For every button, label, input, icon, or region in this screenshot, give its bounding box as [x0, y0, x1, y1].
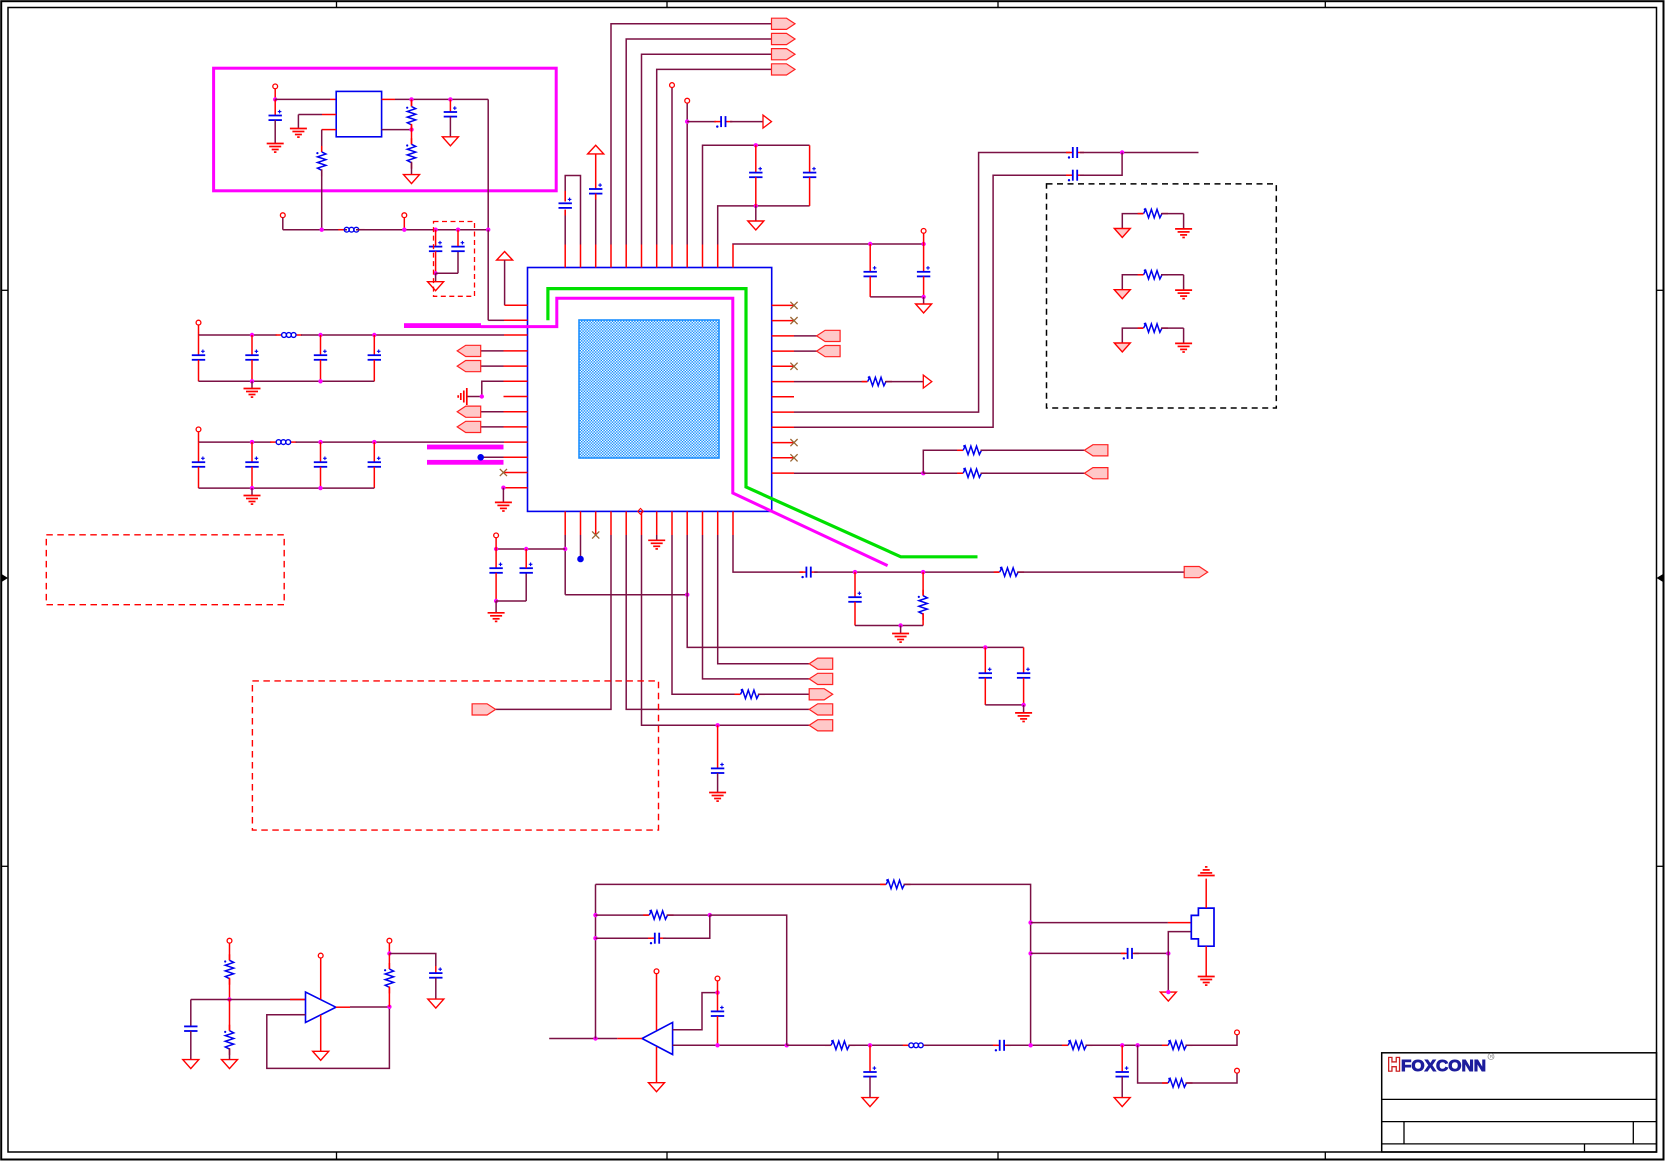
wire: [564, 210, 566, 216]
ground: [1175, 343, 1192, 352]
wire: [350, 1006, 389, 1008]
capacitor C12: [1066, 152, 1073, 154]
title block divider a: [1403, 1122, 1405, 1144]
ground: [267, 144, 284, 153]
wire: [687, 121, 716, 123]
wire: [467, 396, 482, 398]
terminal J9: [494, 533, 499, 538]
wire: [758, 693, 809, 695]
red dashed box B: [252, 681, 658, 830]
connector arrow: [457, 361, 481, 372]
wire: [336, 1006, 350, 1008]
wire: [1017, 571, 1184, 573]
resistor R11: [224, 1025, 234, 1055]
wire: [1161, 274, 1184, 276]
wire: [642, 54, 772, 244]
junction: [785, 1043, 789, 1047]
junction: [1028, 920, 1032, 924]
resistor R16: [1062, 1040, 1092, 1050]
pin stub: [772, 381, 794, 383]
pin stub: [641, 511, 643, 535]
junction: [685, 593, 689, 597]
signal ground: [458, 388, 467, 405]
wire: [495, 538, 497, 549]
junction: [524, 547, 528, 551]
pin stub: [625, 511, 627, 535]
connector arrow: [1184, 567, 1208, 578]
wire: [848, 1044, 907, 1046]
title block outline: [1382, 1053, 1657, 1152]
red dashed box A: [46, 535, 284, 605]
pin stub: [686, 245, 688, 268]
capacitor C18: [1017, 673, 1030, 678]
pin stub: [656, 245, 658, 268]
pin stub: [504, 350, 528, 352]
wire: [251, 442, 253, 462]
wire: [199, 441, 272, 443]
pin stub: [641, 245, 643, 268]
wire: [435, 966, 437, 973]
wire: [595, 154, 597, 189]
wire: [229, 943, 231, 960]
connector arrow: [1084, 468, 1108, 479]
wire: [1031, 952, 1126, 954]
wire: [718, 206, 810, 245]
junction: [563, 547, 567, 551]
wire: [1023, 678, 1025, 705]
wire: [322, 114, 336, 116]
resistor R3: [406, 138, 416, 168]
terminal J15: [1235, 1030, 1240, 1035]
wire: [733, 243, 870, 246]
wire: [320, 442, 322, 462]
wire: [502, 488, 504, 503]
wire: [321, 130, 323, 152]
wire: [1183, 275, 1185, 290]
capacitor C20: [848, 597, 861, 602]
ground: [1175, 290, 1192, 299]
wire: [322, 129, 337, 131]
inductor L4: [903, 1043, 929, 1048]
wire: [923, 244, 925, 272]
pin stub: [772, 457, 794, 459]
ground: [313, 1051, 329, 1060]
wire: [290, 999, 306, 1001]
resistor: [1138, 323, 1168, 333]
wire: [199, 334, 277, 336]
wire: [449, 99, 451, 112]
terminal J12: [387, 938, 392, 943]
resistor R5: [957, 445, 987, 455]
resistor R7: [735, 689, 765, 699]
junction: [754, 143, 758, 147]
power arrow VCC: [497, 252, 513, 261]
wire: [663, 915, 710, 938]
pin stub: [717, 511, 719, 535]
ground: [1114, 290, 1130, 299]
wire: [595, 194, 597, 245]
op-amp plus input wire: [673, 993, 718, 1030]
op-amp ground lead: [320, 1015, 322, 1051]
ground: [1175, 229, 1192, 238]
border tick right: [1657, 289, 1664, 291]
wire: [923, 276, 925, 297]
wire: [794, 350, 840, 352]
wire: [496, 535, 611, 709]
pin stub: [564, 245, 566, 268]
wire: [794, 472, 923, 474]
wire: [449, 117, 451, 137]
resistor R9: [918, 590, 928, 620]
capacitor C24: [648, 937, 655, 939]
wire: [457, 230, 459, 246]
wire: [411, 99, 413, 106]
wire: [855, 625, 923, 627]
wire: [595, 884, 597, 1038]
junction: [409, 127, 413, 131]
junction: [402, 228, 406, 232]
wire: [1023, 705, 1025, 713]
ground: [488, 613, 505, 622]
magenta section box: [214, 68, 557, 191]
junction: [480, 394, 484, 398]
wire: [1121, 1045, 1123, 1072]
junction: [227, 997, 231, 1001]
title block row line 1: [1382, 1098, 1657, 1100]
wire: [290, 1014, 306, 1016]
wire: [1186, 1035, 1238, 1046]
terminal J10: [227, 938, 232, 943]
op-amp minus input wire: [673, 1044, 787, 1046]
wire: [251, 360, 253, 382]
wire: [481, 426, 504, 428]
resistor R8: [994, 567, 1024, 577]
connector arrow: [809, 658, 833, 669]
border tick left: [1, 865, 8, 867]
inductor L1: [338, 227, 364, 232]
wire: [274, 99, 276, 116]
pin stub: [772, 365, 794, 367]
wire: [373, 360, 375, 382]
wire: [596, 914, 649, 916]
border tick bottom: [336, 1152, 338, 1160]
junction: [372, 333, 376, 337]
capacitor C5: [559, 203, 572, 208]
pin stub: [610, 511, 612, 535]
pin stub: [504, 411, 528, 413]
wire: [1161, 213, 1184, 215]
wire: [495, 601, 497, 613]
wire: [1122, 328, 1143, 343]
junction: [318, 379, 322, 383]
wire: [657, 69, 772, 244]
ground: [1114, 1098, 1130, 1107]
wire: [282, 218, 284, 230]
wire: [229, 978, 231, 1000]
pin stub: [504, 426, 528, 428]
wire: [1006, 1044, 1067, 1046]
capacitor C13: [1066, 174, 1073, 176]
connector arrow: [817, 346, 841, 357]
ground: [649, 1083, 665, 1092]
pin stub: [671, 245, 673, 268]
border tick bottom: [666, 1152, 668, 1160]
junction: [433, 228, 437, 232]
terminal J5: [196, 427, 201, 432]
test point: [577, 556, 584, 563]
border tick bottom: [997, 1152, 999, 1160]
junction: [387, 1005, 391, 1009]
power arrow: [588, 145, 604, 154]
wire: [667, 914, 710, 916]
capacitor C15: [520, 568, 533, 573]
wire: [496, 600, 526, 602]
wire: [730, 121, 763, 123]
terminal J14: [715, 976, 720, 981]
wire: [373, 442, 375, 462]
wire: [320, 360, 322, 382]
wire: [436, 272, 458, 274]
wire: [1080, 153, 1122, 176]
wire: [595, 194, 597, 200]
junction: [1120, 1043, 1124, 1047]
junction: [456, 228, 460, 232]
wire: [809, 145, 811, 172]
black dashed box: [1047, 184, 1277, 408]
pin stub: [717, 245, 719, 268]
wire: [885, 381, 923, 383]
wire: [981, 472, 1085, 474]
resistor R1: [316, 146, 326, 176]
resistor R4: [862, 376, 892, 386]
border tick right: [1657, 865, 1664, 867]
pin stub: [610, 245, 612, 268]
junction: [1135, 1043, 1139, 1047]
junction: [448, 97, 452, 101]
junction: [318, 333, 322, 337]
red dashed box C: [434, 222, 475, 297]
wire: [495, 573, 497, 601]
capacitor C14: [489, 568, 502, 573]
wire: [1183, 328, 1185, 343]
wire: [580, 535, 582, 556]
ground: [916, 304, 932, 313]
wire: [924, 1044, 997, 1046]
junction: [250, 379, 254, 383]
wire: [251, 381, 253, 388]
resistor R15: [825, 1040, 855, 1050]
pin stub: [504, 319, 528, 321]
wire: [1080, 152, 1199, 154]
junction: [486, 228, 490, 232]
wire: [626, 535, 809, 709]
capacitor C9: [803, 173, 816, 178]
ground: [404, 175, 420, 184]
resistor R2: [406, 101, 416, 131]
wire: [1205, 946, 1207, 976]
wire: [504, 260, 506, 305]
wire: [283, 229, 347, 231]
junction: [715, 723, 719, 727]
junction: [250, 440, 254, 444]
pin stub: [656, 511, 658, 535]
no-connect: [790, 454, 797, 461]
wire: [981, 449, 1085, 451]
connector arrow: [457, 406, 481, 417]
wire: [870, 243, 923, 245]
capacitor: [368, 462, 381, 467]
title block row line 2: [1382, 1121, 1657, 1123]
ground: [1114, 343, 1130, 352]
wire: [1161, 327, 1184, 329]
pin stub: [504, 334, 528, 336]
wire: [900, 626, 902, 634]
junction: [494, 547, 498, 551]
wire: [274, 89, 276, 100]
wire: [198, 360, 200, 382]
inductor L2: [276, 333, 302, 338]
pin stub: [595, 511, 597, 535]
ground: [862, 1098, 878, 1107]
op-amp ground lead: [656, 1047, 658, 1083]
connector arrow: [772, 49, 796, 60]
registered mark: [1488, 1054, 1494, 1060]
wire: [275, 98, 330, 100]
terminal J1: [273, 84, 278, 89]
wire: [1134, 952, 1168, 954]
wire: [611, 24, 772, 245]
junction: [868, 1043, 872, 1047]
wire: [923, 450, 962, 473]
no-connect: [790, 363, 797, 370]
wire: [984, 678, 986, 705]
junction: [715, 1043, 719, 1047]
capacitor: [314, 462, 327, 467]
wire: [656, 535, 658, 540]
ground: [1114, 229, 1130, 238]
Foxconn logo H mark: [1388, 1057, 1400, 1072]
wire: [190, 1031, 192, 1060]
wire: [382, 129, 412, 131]
capacitor C8: [749, 173, 762, 178]
wire: [984, 647, 986, 673]
junction: [715, 990, 719, 994]
junction: [320, 228, 324, 232]
wire: [1186, 1073, 1238, 1083]
op-amp feedback loop: [267, 1007, 390, 1069]
wire: [199, 487, 375, 489]
junction: [708, 913, 712, 917]
wire: [869, 1077, 871, 1098]
resistor R14: [880, 879, 910, 889]
junction: [501, 486, 505, 490]
wire: [869, 244, 871, 272]
wire: [298, 114, 322, 116]
terminal J3: [402, 213, 407, 218]
wire: [1205, 879, 1207, 909]
wire: [869, 1045, 871, 1072]
ground: [442, 137, 458, 146]
capacitor C10: [864, 272, 877, 277]
wire: [717, 1016, 719, 1045]
resistor: [1138, 208, 1168, 218]
ground: [428, 999, 444, 1008]
connector arrow: [809, 689, 833, 700]
terminal J2: [280, 213, 285, 218]
capacitor C23: [711, 1011, 724, 1016]
junction: [921, 570, 925, 574]
terminal J6: [670, 83, 675, 88]
wire: [922, 613, 924, 625]
wire: [1138, 1045, 1168, 1083]
junction: [433, 271, 437, 275]
wire: [814, 571, 999, 573]
pin stub: [671, 511, 673, 535]
wire: [733, 535, 803, 572]
junction: [1028, 951, 1032, 955]
magenta bus bar 1: [404, 323, 481, 328]
capacitor: [368, 355, 381, 360]
no-connect: [790, 317, 797, 324]
wire: [296, 441, 504, 443]
title block divider b: [1632, 1122, 1634, 1144]
wire: [870, 296, 923, 298]
pin stub: [504, 380, 528, 382]
wire: [411, 162, 413, 175]
wire: [687, 595, 1023, 648]
pin stub: [772, 472, 794, 474]
border tick top: [997, 1, 999, 7]
wire: [718, 535, 810, 664]
pin stub: [772, 335, 794, 337]
junction: [318, 486, 322, 490]
wire: [395, 98, 488, 100]
ground: [1015, 713, 1032, 722]
capacitor: [192, 355, 205, 360]
junction: [273, 97, 277, 101]
wire: [403, 218, 405, 230]
wire: [487, 230, 489, 321]
wire: [755, 145, 757, 172]
terminal J11: [318, 953, 323, 958]
wire: [854, 602, 856, 626]
title block row line 3: [1382, 1143, 1657, 1145]
terminal J16: [1235, 1068, 1240, 1073]
border tick bottom: [1324, 1152, 1326, 1160]
wire: [755, 177, 757, 206]
wire: [525, 573, 527, 601]
connector arrow: [809, 673, 833, 684]
transistor Q1: [1191, 908, 1214, 946]
wire: [869, 276, 871, 297]
capacitor C2: [444, 112, 457, 117]
wire: [596, 883, 886, 885]
junction: [1120, 150, 1124, 154]
wire: [382, 98, 395, 100]
junction: [318, 440, 322, 444]
wire: [229, 1048, 231, 1060]
wire: [703, 535, 810, 679]
wire: [321, 169, 323, 229]
wire: [484, 456, 504, 458]
wire: [435, 230, 437, 246]
border mid arrow right: [1657, 574, 1664, 582]
border tick top: [1324, 1, 1326, 7]
wire: [717, 773, 719, 792]
wire: [565, 594, 687, 596]
connector arrow: [817, 330, 841, 341]
junction: [494, 599, 498, 603]
